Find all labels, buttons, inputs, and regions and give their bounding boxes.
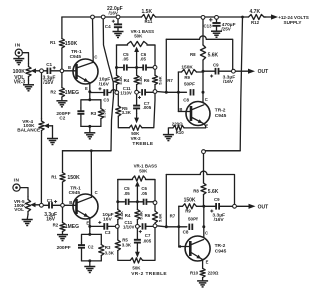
node TR-2 lower collector junction [202, 205, 205, 208]
wire top supply rail left segment [62, 16, 141, 18]
ground below R10 lower [197, 281, 208, 287]
resistor R9 150K [178, 69, 203, 74]
wire lower jack to VR-5 [20, 188, 28, 197]
wire base to TR-1 lower [63, 204, 77, 206]
node lower right rail lower ring [153, 224, 157, 228]
node lower rail R8 junction [202, 150, 206, 154]
wire tone right rail top [147, 45, 155, 66]
svg-text:B: B [68, 65, 71, 70]
wire lower emitter network bottom [82, 260, 102, 262]
svg-text:C945: C945 [70, 54, 82, 60]
svg-text:C945: C945 [69, 190, 81, 196]
svg-text:R8: R8 [190, 52, 196, 57]
svg-text:200PF: 200PF [57, 245, 71, 251]
wire C3 to hop [107, 92, 111, 94]
capacitor C11 1uF 10V [133, 94, 140, 114]
svg-text:C3: C3 [103, 98, 109, 103]
svg-text:OUT: OUT [258, 204, 269, 210]
svg-text:.005: .005 [143, 238, 152, 243]
wire lower feedback horizontal left [166, 174, 200, 176]
potentiometer VR-2 TREBLE 50K [118, 125, 142, 130]
svg-text:.005: .005 [143, 105, 152, 110]
svg-text:R1: R1 [50, 40, 56, 45]
resistor R5 lower 3.3K [115, 228, 120, 260]
svg-text:TR-2: TR-2 [215, 243, 226, 249]
transistor TR-1 C945 [73, 59, 98, 84]
wire jack to VR-3 [22, 53, 28, 64]
plus C11 lower [139, 230, 142, 233]
svg-text:C13: C13 [204, 24, 213, 29]
ground below R2 [56, 101, 67, 107]
wire tone left rail upper [116, 45, 118, 74]
ground below lower emitter network [84, 261, 95, 273]
wire lower base to TR-2 [179, 246, 191, 248]
svg-text:.05: .05 [122, 57, 129, 62]
resistor R3 lower 3.3K [99, 234, 104, 261]
svg-text:C: C [94, 54, 97, 59]
svg-text:50PF: 50PF [184, 81, 195, 86]
capacitor C2 200PF [77, 108, 84, 126]
node rail-C13 junction [215, 16, 219, 20]
potentiometer VR-1 BASS 50K [117, 41, 156, 67]
capacitor C1 3.3uF [43, 68, 62, 74]
node TR-2 collector junction [202, 70, 205, 73]
wire lower tone left rail upper [117, 180, 119, 209]
svg-text:50K: 50K [139, 168, 148, 173]
wire tone box top left [117, 44, 128, 46]
svg-text:C9: C9 [213, 62, 219, 67]
svg-text:IN: IN [15, 42, 21, 48]
node emitter network bottom junction [88, 125, 91, 128]
ground below C13 [211, 31, 222, 37]
svg-text:TREBLE: TREBLE [132, 141, 153, 147]
wire C6 to right rail ring [148, 67, 154, 69]
wire lower right rail down to VR-2 [143, 228, 155, 261]
svg-text:/16V: /16V [109, 10, 119, 15]
capacitor C8 50PF [191, 89, 194, 95]
svg-text:R10: R10 [190, 270, 199, 275]
input jack top [15, 49, 22, 56]
svg-text:OUT: OUT [258, 69, 269, 75]
wire collector node down [202, 71, 204, 102]
capacitor C5 .05 [124, 64, 137, 70]
capacitor C7 lower .005 [143, 223, 154, 229]
svg-text:R8: R8 [193, 188, 199, 193]
svg-text:1/10V: 1/10V [120, 90, 132, 95]
svg-text:E: E [86, 221, 89, 226]
wire right rail down to VR-2 [142, 93, 155, 128]
node lower R9 left junction [177, 225, 180, 228]
svg-text:1MEG: 1MEG [65, 90, 79, 96]
node R9 left junction [177, 91, 180, 94]
wire feedback riser [165, 39, 167, 92]
node VR-5 wiper junction [40, 203, 44, 207]
svg-text:C: C [95, 190, 98, 195]
node lower left rail C5 junction [116, 200, 119, 203]
wire lower supply rail right [204, 150, 241, 152]
node lower C8 right junction [202, 225, 205, 228]
wire lower emitter network top left [82, 234, 90, 242]
resistor R4 lower [115, 209, 120, 225]
plus C3 [99, 87, 102, 90]
arrow OUT top [235, 69, 255, 74]
resistor R1 lower 150K [60, 151, 65, 206]
wire supply feed to lower channel [63, 17, 114, 151]
svg-text:50K: 50K [132, 266, 141, 271]
input jack lower [13, 184, 20, 191]
ground below VR-4 wiper [47, 139, 58, 145]
node C8 right junction [202, 91, 205, 94]
wire TR-2 emitter down [184, 124, 205, 128]
svg-text:5.6K: 5.6K [208, 53, 219, 59]
svg-text:C945: C945 [215, 248, 227, 254]
wire lower supply rail left [63, 150, 112, 152]
capacitor C4 22uF [114, 17, 122, 32]
potentiometer VR-5 100K volume [25, 197, 39, 215]
arrow VR-2 lower wiper [135, 248, 140, 258]
resistor R8 lower 5.6K [201, 153, 206, 207]
wire tone output line [157, 91, 187, 94]
svg-text:C9: C9 [214, 197, 220, 202]
svg-text:E: E [85, 86, 88, 91]
resistor R12 4.7K [243, 14, 267, 19]
resistor R4 [114, 74, 119, 91]
node lower right rail upper ring [153, 201, 157, 205]
svg-text:150K: 150K [65, 41, 78, 47]
svg-text:C: C [205, 97, 208, 102]
svg-text:1/10V: 1/10V [123, 225, 135, 230]
svg-text:E: E [206, 259, 209, 264]
wire lower feedback riser [165, 175, 167, 227]
capacitor C3 lower 10uF [90, 223, 116, 230]
wire top supply rail right segment [156, 16, 243, 18]
capacitor C13 470uF [212, 17, 220, 30]
plus C11 [138, 96, 141, 99]
node lower emitter network top junction [88, 233, 91, 236]
capacitor C2 lower 200PF [78, 243, 85, 261]
plus C9 [210, 75, 213, 78]
transistor TR-2 C945 [186, 102, 210, 126]
svg-text:B: B [179, 107, 182, 112]
node emitter network top junction [88, 98, 91, 101]
svg-text:4.7K: 4.7K [250, 9, 261, 15]
wire base to TR-1 [62, 70, 77, 72]
svg-text:.05: .05 [141, 191, 148, 196]
node TR-1 lower emitter junction [88, 225, 91, 228]
svg-text:R11: R11 [145, 19, 153, 24]
wire TR-1 lower emitter down [89, 218, 91, 235]
supply arrow [264, 14, 278, 19]
node TR-1 emitter junction [88, 90, 91, 93]
svg-text:150K: 150K [184, 197, 196, 203]
svg-text:R12: R12 [251, 20, 260, 25]
wire lower tone box top left [118, 179, 133, 181]
resistor R8 5.6K [200, 17, 205, 71]
svg-text:.05: .05 [124, 191, 131, 196]
svg-text:.05: .05 [140, 57, 147, 62]
ground below top jack [13, 56, 24, 64]
resistor R3 3.3K [98, 100, 103, 127]
capacitor C6 .05 [137, 64, 154, 70]
resistor R6 lower [135, 202, 140, 225]
potentiometer VR-1 lower BASS 50K [118, 176, 155, 202]
node rail-R8 junction [201, 16, 205, 20]
svg-text:C4: C4 [105, 24, 111, 29]
resistor R10 220 [170, 125, 184, 130]
svg-text:R9: R9 [184, 75, 190, 80]
capacitor C8 lower 50PF [189, 224, 192, 230]
resistor R2 1MEG [59, 71, 64, 101]
svg-text:R1: R1 [51, 174, 57, 179]
potentiometer VR-4 100K balance [39, 119, 53, 134]
svg-text:5.6K: 5.6K [139, 211, 144, 220]
node lower wiper line ring [136, 225, 140, 229]
wire lower hop over R8 line [200, 171, 207, 174]
wire lower R9 left vertical [178, 206, 180, 246]
wire C5 line left [117, 67, 123, 69]
wire lower C5 line left [118, 201, 125, 203]
svg-text:16V: 16V [103, 217, 112, 223]
capacitor C1 lower 3.3uF [43, 202, 62, 208]
svg-text:C2: C2 [88, 245, 94, 250]
node wiper line ring [135, 90, 139, 94]
node lower C5 C6 wiper junction [136, 200, 139, 203]
svg-text:R7: R7 [170, 214, 176, 219]
svg-text:1MEG: 1MEG [65, 224, 79, 230]
svg-text:C3: C3 [105, 230, 111, 235]
node lower emitter network bottom junction [88, 259, 91, 262]
svg-text:/16V: /16V [223, 79, 234, 85]
svg-text:R2: R2 [50, 90, 56, 95]
svg-text:5.6K: 5.6K [138, 76, 143, 85]
wire base to TR-2 [178, 111, 190, 113]
resistor R6 [134, 68, 139, 91]
capacitor C9 lower 3.3uF [204, 203, 233, 210]
wire TR-1 collector up to rail [92, 17, 95, 62]
wire lower tone output line [157, 226, 187, 227]
svg-text:50K: 50K [134, 34, 143, 39]
wire supply line down crossing [204, 17, 243, 151]
node lower feedback riser junction [165, 225, 168, 228]
wire lower collector node down [203, 206, 205, 237]
plus C4 [112, 20, 115, 23]
ground below R2 lower [57, 235, 68, 241]
potentiometer VR-3 100K volume [26, 64, 40, 81]
resistor R10 lower 220 [200, 260, 205, 281]
svg-text:R6: R6 [144, 78, 150, 83]
svg-text:C945: C945 [215, 113, 227, 119]
svg-text:C2: C2 [59, 115, 65, 120]
svg-text:/16V: /16V [99, 81, 110, 87]
svg-text:B: B [69, 200, 72, 205]
svg-text:5.6K: 5.6K [158, 213, 163, 222]
svg-text:3.3K: 3.3K [122, 110, 132, 115]
wire emitter network top right [90, 99, 101, 101]
node C5 C6 wiper junction [135, 66, 138, 69]
svg-text:SUPPLY: SUPPLY [284, 20, 302, 25]
svg-text:R2: R2 [53, 222, 59, 227]
wire lower ring to C7 [139, 225, 140, 227]
node lower OUT ring [233, 204, 237, 208]
svg-text:VOL: VOL [14, 207, 24, 212]
node rail-C4 junction [116, 15, 120, 19]
node right rail upper ring [153, 66, 157, 70]
svg-text:IN: IN [14, 177, 20, 183]
node tone network input ring [115, 91, 119, 95]
svg-text:220Ω: 220Ω [208, 270, 219, 275]
wire VR-4 to lower channel node [40, 133, 42, 204]
svg-text:R6: R6 [145, 213, 151, 218]
resistor R2 lower 1MEG [60, 205, 65, 234]
wire R10 to ground [168, 128, 170, 135]
svg-text:5.6K: 5.6K [119, 211, 124, 220]
ground below emitter network [84, 126, 95, 138]
resistor R5 3.3K [116, 94, 121, 127]
svg-text:/16V: /16V [214, 217, 225, 223]
wire ring to C7 [138, 91, 140, 93]
capacitor C9 3.3uF [203, 68, 232, 75]
svg-text:C1: C1 [47, 198, 53, 203]
plus C1 [53, 66, 56, 69]
node rail-collector junction [91, 15, 95, 19]
wire emitter network bottom [81, 125, 101, 127]
svg-text:R3: R3 [91, 111, 97, 116]
svg-text:/16V: /16V [43, 80, 54, 86]
svg-text:VR-2 TREBLE: VR-2 TREBLE [131, 271, 167, 277]
svg-text:3.3K: 3.3K [102, 109, 107, 118]
plus C3 lower [98, 221, 101, 224]
svg-text:C8: C8 [183, 98, 189, 103]
svg-text:3.3K: 3.3K [105, 251, 115, 256]
wire VR-4 wiper to ground [52, 126, 54, 139]
plus C13 [209, 18, 213, 22]
resistor R11 1.5K in rail [141, 14, 156, 19]
resistor R7 lower 5.6K [152, 204, 157, 224]
resistor R1 150K [59, 17, 64, 71]
node rail-lowerchannel-supply junction [101, 15, 105, 19]
node TR-1 lower base junction [61, 204, 65, 208]
svg-text:R4: R4 [125, 213, 131, 218]
svg-text:150K: 150K [67, 175, 80, 181]
capacitor C3 10uF [90, 89, 108, 96]
wire R9 left vertical [177, 72, 179, 112]
svg-text:/25V: /25V [221, 27, 231, 32]
svg-text:50Pf: 50Pf [188, 217, 198, 222]
wire VR-5 to ground [26, 215, 29, 220]
wire TR-1 emitter down [89, 83, 91, 100]
node rail-supply-down junction [241, 16, 244, 19]
wire wiper node down to VR-4 [41, 73, 43, 119]
wire emitter network top left [81, 100, 90, 108]
potentiometer VR-2 lower TREBLE 50K [118, 258, 143, 263]
wire feedback horizontal left [166, 38, 199, 40]
svg-text:C7: C7 [145, 233, 151, 238]
node right rail lower ring [153, 90, 157, 94]
wire feedback horizontal right [206, 39, 232, 69]
node feedback riser junction [165, 91, 168, 94]
capacitor C7 .005 [142, 89, 153, 95]
node VR-3 wiper junction [40, 69, 44, 73]
svg-text:C: C [205, 231, 208, 236]
svg-text:TR-2: TR-2 [215, 107, 226, 113]
ground below VR-5 [22, 220, 33, 226]
ground below VR-3 [23, 81, 34, 91]
wire hop to tone input node [115, 92, 116, 94]
wire TR-1 lower collector up [90, 151, 92, 197]
node left rail C5 junction [115, 66, 118, 69]
node lower tone input ring [115, 225, 119, 229]
resistor R9 lower 150K [179, 204, 204, 209]
svg-text:5.6K: 5.6K [118, 76, 123, 85]
plus C1 lower [54, 200, 57, 203]
svg-text:BALANCE: BALANCE [17, 128, 40, 133]
svg-text:C8: C8 [183, 230, 189, 235]
node OUT ring top [232, 69, 236, 73]
svg-text:VR-2: VR-2 [131, 136, 142, 141]
transistor TR-1 lower C945 [73, 194, 98, 219]
wire lower tone right rail top [146, 180, 156, 201]
wire hop over R8 line [200, 36, 207, 39]
capacitor C6 lower .05 [137, 199, 153, 205]
wire lower feedback horizontal right [207, 175, 235, 205]
capacitor C5 lower .05 [126, 199, 138, 205]
svg-text:R4: R4 [124, 78, 130, 83]
svg-text:C1: C1 [46, 62, 52, 67]
arrow OUT lower [236, 204, 255, 209]
svg-text:220Ω: 220Ω [172, 121, 183, 126]
svg-text:B: B [178, 244, 181, 249]
resistor R7 5.6K [152, 69, 157, 90]
svg-text:R3: R3 [105, 245, 111, 250]
ground below R10 [163, 135, 174, 141]
svg-text:150K: 150K [181, 64, 193, 70]
node TR-1 base junction [60, 69, 64, 73]
svg-text:R7: R7 [167, 78, 173, 83]
ground below C4 [113, 32, 124, 38]
svg-text:R10: R10 [176, 130, 185, 135]
wire hop over supply line [111, 90, 117, 93]
svg-text:5.6K: 5.6K [157, 76, 162, 85]
arrow VR-2 wiper [134, 114, 139, 124]
capacitor C11 lower [134, 228, 141, 248]
node lower rail TR-1 collector junction [90, 149, 93, 152]
svg-text:5.6K: 5.6K [208, 189, 219, 195]
svg-text:1.5K: 1.5K [142, 9, 153, 15]
transistor TR-2 lower C945 [185, 236, 210, 261]
svg-text:R9: R9 [185, 209, 191, 214]
svg-text:3.3K: 3.3K [122, 243, 132, 248]
plus C9 lower [210, 210, 213, 213]
wire lower emitter network top right [90, 233, 102, 235]
